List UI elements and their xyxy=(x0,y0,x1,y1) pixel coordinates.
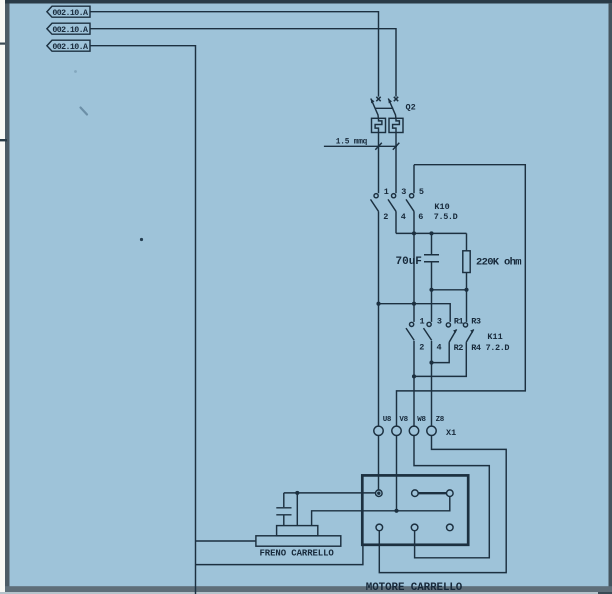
motor terminal U (junction) xyxy=(376,490,383,497)
wire L1 from tag to Q2 xyxy=(90,12,379,97)
wire brake line2 to V8 node xyxy=(312,511,397,526)
wire rail at 376 pole4 to pole1 xyxy=(414,342,466,376)
svg-text:1: 1 xyxy=(384,187,389,197)
wire K11 pole2 down to X1 xyxy=(431,341,433,426)
motor M1 frame xyxy=(362,475,468,544)
node brake junction xyxy=(295,491,299,495)
contactor K11 pole 4 (R3-R4) xyxy=(463,323,473,342)
svg-text:K11: K11 xyxy=(487,332,502,342)
contactor K10 pole 3 (5-6) xyxy=(406,194,414,212)
Q2 thermal element pole 2 xyxy=(389,118,403,132)
wire L2 from tag to Q2 xyxy=(90,29,396,97)
wire PE to brake xyxy=(196,540,256,542)
wire V8 junction to link bar xyxy=(397,497,450,511)
motor bottom terminals xyxy=(376,524,453,531)
svg-text:R4: R4 xyxy=(471,343,481,353)
svg-text:FRENO CARRELLO: FRENO CARRELLO xyxy=(260,548,335,558)
wire K11 pole1 down to X1 xyxy=(413,341,415,426)
wire pole1 down to X1 xyxy=(378,212,380,426)
net tag 002.10.A (PE) xyxy=(47,40,90,52)
svg-text:002.10.A: 002.10.A xyxy=(52,43,88,52)
wire PE to motor frame xyxy=(196,545,363,565)
svg-text:002.10.A: 002.10.A xyxy=(52,26,88,35)
svg-text:7.2.D: 7.2.D xyxy=(486,343,510,353)
svg-text:X1: X1 xyxy=(446,428,456,438)
wire Z8 path to motor xyxy=(379,436,506,573)
svg-text:220K ohm: 220K ohm xyxy=(476,256,521,268)
svg-text:U8: U8 xyxy=(383,416,392,424)
wire right loop from K10 pole3 top xyxy=(397,165,526,426)
node cap bottom xyxy=(429,288,433,292)
svg-text:3: 3 xyxy=(437,317,442,327)
svg-text:002.10.A: 002.10.A xyxy=(52,9,88,18)
node U rail304 xyxy=(376,302,380,306)
node W rail304 xyxy=(412,302,416,306)
wire U8 to motor xyxy=(378,436,380,491)
breaker Q2 pole 2 contact xyxy=(388,97,398,119)
contactor K11 pole 1 (1-2) xyxy=(406,322,414,340)
svg-text:2: 2 xyxy=(419,343,424,353)
svg-text:70uF: 70uF xyxy=(396,256,422,268)
svg-text:R2: R2 xyxy=(454,343,464,353)
net tag 002.10.A (L2) xyxy=(47,23,90,35)
node rail376 xyxy=(412,374,416,378)
node W phase rail233 xyxy=(412,231,416,235)
brake shoe platform xyxy=(256,536,341,546)
svg-text:R3: R3 xyxy=(471,317,481,327)
svg-text:Z8: Z8 xyxy=(436,416,445,424)
wire rail at 290 xyxy=(432,289,467,291)
net tag 002.10.A (L1) xyxy=(47,6,90,18)
terminal X1 Z8 xyxy=(427,426,436,435)
wire Q2 pole1 to K10 xyxy=(378,133,380,194)
svg-text:7.5.D: 7.5.D xyxy=(434,212,458,222)
wire brake junction down xyxy=(296,493,298,526)
node cap rail233 xyxy=(429,231,433,235)
terminal X1 V8 xyxy=(392,426,401,435)
svg-text:V8: V8 xyxy=(399,416,408,424)
svg-text:R1: R1 xyxy=(454,317,464,327)
svg-text:5: 5 xyxy=(419,187,424,197)
svg-text:1.5 mmq: 1.5 mmq xyxy=(336,138,368,146)
wire Q2 pole2 to K10 xyxy=(395,133,397,194)
svg-text:4: 4 xyxy=(437,343,442,353)
wire brake to motor U terminal xyxy=(284,492,376,494)
svg-text:Q2: Q2 xyxy=(406,103,416,113)
svg-text:K10: K10 xyxy=(434,202,449,212)
wire pole2 down to rail xyxy=(395,212,397,234)
capacitor 70uF xyxy=(396,233,440,322)
contactor K11 pole 3 (R1-R2) xyxy=(446,323,456,342)
brake rectifier plates xyxy=(276,493,291,526)
terminal X1 U8 xyxy=(374,426,383,435)
node rail362 xyxy=(429,361,433,365)
contactor K11 pole 2 (3-4) xyxy=(424,322,432,340)
svg-text:6: 6 xyxy=(418,212,423,222)
Q2 mechanical link xyxy=(375,107,393,109)
Q2 thermal element pole 1 xyxy=(372,118,386,132)
svg-text:3: 3 xyxy=(401,187,406,197)
svg-text:W8: W8 xyxy=(417,416,426,424)
contactor K10 pole 2 (3-4) xyxy=(388,194,396,212)
wire V8 into motor xyxy=(396,436,398,511)
svg-text:MOTORE CARRELLO: MOTORE CARRELLO xyxy=(366,582,463,594)
resistor 220K ohm xyxy=(463,233,521,322)
cable callout 1.5 mmq xyxy=(324,138,399,149)
wire rail at 233 xyxy=(396,232,467,234)
terminal X1 W8 xyxy=(409,426,418,435)
node V8 motor xyxy=(394,509,398,513)
wire rail at 304 xyxy=(379,304,451,322)
svg-text:4: 4 xyxy=(401,212,406,222)
contactor K10 pole 1 (1-2) xyxy=(371,194,379,212)
motor terminal link bar xyxy=(412,490,454,497)
wire rail at 362 pole3 to pole2 xyxy=(432,342,450,363)
node res bottom xyxy=(464,288,468,292)
wire W8 path to motor xyxy=(414,436,489,558)
breaker Q2 pole 1 contact xyxy=(371,97,381,119)
wire pole3 down through rails xyxy=(413,212,415,322)
svg-text:1: 1 xyxy=(420,317,425,327)
wire PE down left side xyxy=(90,46,196,594)
svg-text:2: 2 xyxy=(383,212,388,222)
brake coil box xyxy=(277,526,318,536)
